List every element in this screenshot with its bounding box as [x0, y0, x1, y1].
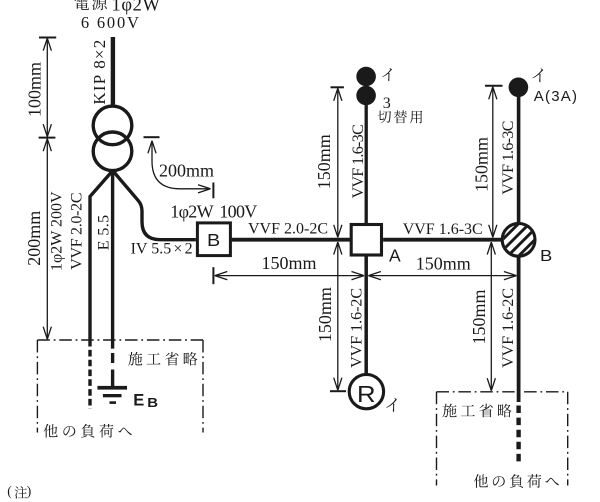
transformer T secondary circle	[93, 132, 132, 171]
label dengen	[75, 0, 107, 10]
wire node A down to lamp R	[364, 257, 368, 374]
label sekou L	[128, 352, 197, 366]
ground electrode EB bar1	[97, 386, 127, 390]
label kirikae	[378, 110, 423, 123]
svg-text:150mm: 150mm	[469, 289, 489, 344]
svg-text:B: B	[147, 395, 158, 410]
svg-text:R: R	[357, 382, 376, 407]
wire left branch dashed inside omitted box	[88, 350, 91, 409]
dim arrows horizontal right	[368, 272, 381, 280]
svg-text:200mm: 200mm	[24, 211, 44, 266]
svg-text:B: B	[540, 246, 552, 265]
svg-text:1φ2W 100V: 1φ2W 100V	[170, 201, 257, 221]
lamp R circle	[349, 374, 383, 408]
svg-text:E 5.5: E 5.5	[96, 214, 113, 250]
lamp B hatched circle	[502, 223, 535, 256]
svg-text:200mm: 200mm	[159, 160, 214, 180]
svg-text:A: A	[389, 246, 401, 266]
dim arrow down at left box top	[43, 327, 51, 340]
wire VVF2.0-2C from box B to node A	[232, 238, 350, 242]
svg-text:): )	[27, 483, 32, 498]
wire switch to node A	[365, 104, 368, 223]
wire lamp B down to omitted section	[517, 256, 521, 402]
dim tick left of horizontal	[212, 267, 214, 284]
svg-text:E: E	[133, 392, 144, 410]
dim arrows upper-right	[489, 87, 497, 100]
svg-text:VVF 1.6-3C: VVF 1.6-3C	[350, 125, 367, 199]
label tano L	[44, 424, 132, 438]
dim arrows horizontal left	[215, 272, 228, 280]
label i2	[533, 68, 544, 82]
ground electrode EB bar2	[103, 394, 122, 397]
dim 200mm leader arrow right	[198, 185, 211, 193]
dim 100mm/200mm vertical line	[46, 38, 48, 339]
node A outlet box square	[351, 225, 381, 256]
svg-text:150mm: 150mm	[315, 287, 335, 342]
svg-text:150mm: 150mm	[471, 137, 491, 192]
dim 200mm leader arrow up	[148, 141, 156, 154]
wire middle branch dashed segments	[111, 353, 114, 386]
ground electrode EB bar3	[110, 401, 117, 404]
svg-text:150mm: 150mm	[314, 134, 334, 189]
dim tick above switch	[331, 86, 344, 88]
wire right switch to lamp B	[517, 96, 521, 223]
svg-text:6 600V: 6 600V	[81, 13, 141, 32]
wire middle branch E5.5 earth conductor	[111, 171, 114, 349]
label i3	[386, 398, 397, 412]
dim 150mm lower-right vertical line	[490, 242, 492, 391]
svg-text:VVF 1.6-2C: VVF 1.6-2C	[500, 288, 517, 368]
svg-text:(: (	[7, 483, 12, 498]
junction box B	[197, 223, 230, 256]
switch circle right (i) A(3A)	[509, 78, 529, 98]
wire incoming 6600V source (KIP)	[111, 37, 115, 105]
transformer T primary circle	[93, 106, 132, 145]
svg-text:3: 3	[383, 95, 391, 112]
label chuu	[15, 486, 28, 498]
dim 150mm horizontal left line	[215, 275, 364, 277]
text labels sans	[133, 88, 578, 410]
dim arrows lower-right	[487, 242, 495, 255]
svg-text:150mm: 150mm	[262, 253, 317, 273]
svg-text:VVF 1.6-2C: VVF 1.6-2C	[349, 288, 366, 368]
lamp B hatch lines	[499, 220, 538, 259]
svg-text:1φ2W 200V: 1φ2W 200V	[49, 191, 66, 271]
dim arrow down at middle tick	[43, 124, 51, 137]
switch circle lower 3-way	[356, 86, 376, 106]
omitted-construction box left (dash-dot)	[37, 340, 203, 433]
dim 150mm lower-left vertical line	[337, 242, 339, 390]
svg-text:KIP 8×2: KIP 8×2	[90, 39, 109, 105]
dimension lines thin	[39, 38, 517, 392]
wire left branch 1phi2W 200V	[90, 171, 113, 347]
svg-text:100mm: 100mm	[25, 62, 45, 117]
dim 200mm curved leader	[152, 141, 209, 189]
svg-text:VVF 1.6-3C: VVF 1.6-3C	[403, 221, 483, 238]
dim tick above right switch	[485, 85, 503, 87]
wire right branch IV5.5x2 to box B	[113, 171, 196, 240]
dim tick at lamp R	[330, 390, 346, 392]
wire dashed to other loads (right)	[516, 406, 520, 463]
svg-text:A(3A): A(3A)	[534, 88, 578, 105]
omitted-construction box right (dash-dot)	[437, 392, 568, 486]
svg-text:150mm: 150mm	[416, 253, 471, 273]
dim 150mm upper-right vertical line	[492, 87, 494, 238]
dim tick top	[39, 37, 56, 39]
dim arrows lower-left	[334, 242, 342, 255]
label tano R	[474, 474, 559, 488]
dim 150mm horizontal right line	[368, 275, 516, 277]
dim 150mm upper-left vertical line	[337, 88, 339, 237]
dim tick middle	[39, 137, 56, 139]
label i1	[382, 68, 392, 81]
switch circle upper (i)	[356, 67, 376, 87]
wire VVF1.6-3C from node A to lamp B	[383, 238, 501, 242]
svg-text:VVF 2.0-2C: VVF 2.0-2C	[248, 221, 328, 238]
label sekou R	[442, 404, 511, 418]
dim 200mm leader tick near box B	[212, 183, 214, 199]
svg-text:VVF 2.0-2C: VVF 2.0-2C	[68, 193, 85, 270]
svg-text:VVF 1.6-3C: VVF 1.6-3C	[500, 121, 517, 195]
dim arrow up at top	[43, 38, 51, 51]
dim arrow up below middle tick	[43, 139, 51, 152]
dim arrows upper-left	[334, 88, 342, 101]
dim 200mm leader tick at transformer	[144, 136, 160, 138]
svg-text:B: B	[207, 231, 220, 251]
